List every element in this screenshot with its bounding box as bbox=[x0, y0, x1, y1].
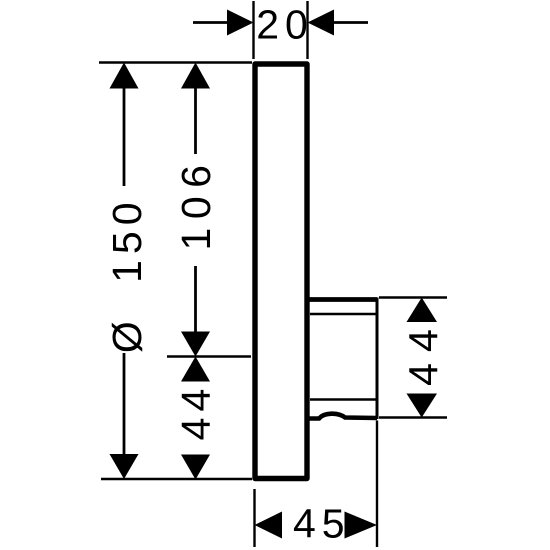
svg-text:20: 20 bbox=[256, 2, 314, 48]
svg-text:106: 106 bbox=[173, 157, 219, 251]
svg-text:44: 44 bbox=[173, 383, 219, 441]
svg-text:44: 44 bbox=[401, 318, 447, 386]
svg-text:45: 45 bbox=[293, 501, 351, 547]
svg-text:Ø 150: Ø 150 bbox=[104, 196, 150, 353]
